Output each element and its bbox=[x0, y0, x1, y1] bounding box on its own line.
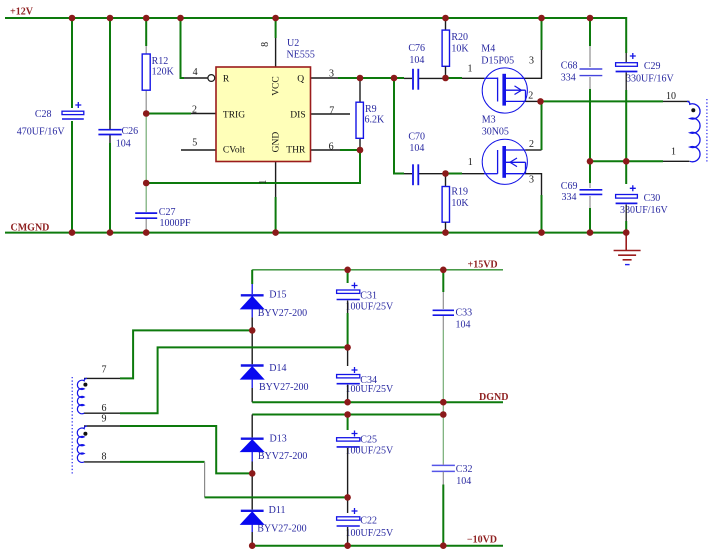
svg-text:334: 334 bbox=[562, 192, 577, 203]
resistor R19 top lead bbox=[445, 174, 447, 187]
C25 bottom lead bbox=[347, 448, 349, 498]
T1 pin8 lead bbox=[84, 461, 120, 463]
capacitor C32 bbox=[432, 464, 473, 487]
wire C26 column bbox=[109, 18, 111, 233]
transformer T1 pin1 lead bbox=[663, 160, 690, 162]
T1 primary core dashed line bbox=[706, 99, 708, 164]
pin U2.8 lead bbox=[275, 38, 277, 67]
capacitor C33 leads bbox=[442, 292, 444, 330]
transformer T1 secondary winding A (pins 7-6) bbox=[77, 378, 87, 413]
wire TRIG row bbox=[146, 113, 191, 115]
junction row2/C25 top bbox=[344, 411, 351, 418]
wire C70 right to gate node bbox=[419, 173, 443, 175]
wire VCC to bus bbox=[275, 18, 277, 38]
svg-text:4: 4 bbox=[193, 67, 198, 78]
svg-text:+15VD: +15VD bbox=[468, 259, 498, 270]
capacitor C33 bbox=[433, 307, 473, 330]
svg-text:THR: THR bbox=[286, 145, 306, 155]
wire C31 column top bbox=[347, 270, 349, 283]
wire C30 top to row1 bbox=[625, 161, 627, 184]
svg-text:330UF/16V: 330UF/16V bbox=[620, 205, 669, 216]
svg-text:C27: C27 bbox=[159, 207, 176, 218]
power port DGND bbox=[479, 392, 508, 403]
svg-text:D11: D11 bbox=[269, 505, 286, 516]
C25 top lead bbox=[347, 415, 349, 431]
svg-text:3: 3 bbox=[329, 69, 334, 80]
junction TRIG node bbox=[143, 110, 150, 117]
junction CMGND/C26 bbox=[107, 229, 114, 236]
svg-text:M3: M3 bbox=[482, 114, 496, 125]
svg-text:120K: 120K bbox=[152, 67, 175, 78]
svg-text:1: 1 bbox=[258, 180, 269, 185]
M3 pin numbers bbox=[468, 139, 534, 186]
svg-text:C68: C68 bbox=[561, 60, 578, 71]
junction M4 source node bbox=[537, 98, 544, 105]
junction C29/C30 row1 bbox=[623, 158, 630, 165]
wire R12 bottom to TRIG node bbox=[145, 90, 147, 113]
svg-text:100UF/25V: 100UF/25V bbox=[346, 528, 395, 539]
wire pin4 branch bbox=[181, 18, 185, 78]
junction Q/C70 branch bbox=[391, 75, 398, 82]
C31 bottom lead bbox=[347, 301, 349, 314]
junction R20/C76/M4 gate bbox=[442, 75, 449, 82]
wire winding pin8 to C25/C22 midpoint bbox=[120, 461, 205, 463]
power port +12V bbox=[10, 7, 34, 18]
svg-text:R: R bbox=[223, 75, 230, 85]
C34 leads bbox=[347, 347, 349, 402]
svg-text:C22: C22 bbox=[360, 516, 377, 527]
pin U2.2 lead bbox=[191, 113, 216, 115]
junction +15VD/C33 bbox=[440, 267, 447, 274]
junction CMGND/C69 bbox=[587, 229, 594, 236]
junction DGND/C34 bbox=[344, 399, 351, 406]
junction CMGND/C27 bbox=[143, 229, 150, 236]
C22 leads bbox=[347, 497, 349, 545]
svg-text:470UF/16V: 470UF/16V bbox=[17, 126, 66, 137]
M3 pin2 lead bbox=[526, 149, 542, 151]
T1 pin number 7 bbox=[102, 365, 107, 376]
winding A polarity dot bbox=[83, 383, 87, 387]
resistor R19 bbox=[442, 187, 469, 223]
svg-text:VCC: VCC bbox=[272, 76, 282, 96]
node +15VD rail bbox=[252, 270, 503, 284]
svg-text:104: 104 bbox=[456, 319, 471, 330]
wire pin8 row to midpoint bbox=[205, 496, 348, 498]
pin U2.5 lead bbox=[181, 149, 216, 151]
svg-text:C69: C69 bbox=[561, 181, 578, 192]
resistor R20 top wire bbox=[445, 19, 447, 30]
junction row2/DGND branch bbox=[440, 411, 447, 418]
C26 pins bbox=[109, 120, 111, 143]
svg-text:D13: D13 bbox=[270, 433, 287, 444]
U2 pin numbers bbox=[192, 42, 334, 185]
node DGND rail bbox=[252, 401, 503, 403]
M4 pin3 lead bbox=[525, 50, 542, 78]
wire C69 top to row1 bbox=[589, 161, 591, 183]
wire GND pin to bus bbox=[275, 197, 277, 233]
svg-text:BYV27-200: BYV27-200 bbox=[258, 451, 307, 462]
wire M3 source to CMGND bbox=[541, 195, 543, 233]
svg-text:D15P05: D15P05 bbox=[481, 55, 514, 66]
svg-text:C25: C25 bbox=[360, 435, 377, 446]
wire C76 right to gate node bbox=[419, 77, 443, 79]
junction CMGND/U2 GND bbox=[272, 229, 279, 236]
wire row2 to C32 (pale) bbox=[442, 415, 444, 464]
svg-text:7: 7 bbox=[102, 365, 107, 376]
svg-text:5: 5 bbox=[192, 138, 197, 149]
pin U2.4 lead bbox=[184, 77, 208, 79]
svg-text:DGND: DGND bbox=[479, 392, 508, 403]
svg-text:10: 10 bbox=[666, 91, 676, 102]
D13 anode lead bbox=[251, 462, 253, 474]
svg-text:C76: C76 bbox=[408, 43, 425, 54]
resistor R19 bottom lead bbox=[445, 222, 447, 232]
svg-text:2: 2 bbox=[528, 90, 533, 101]
wire pin8 vertical (grey) bbox=[204, 462, 206, 498]
junction +12V/U2 VCC bbox=[272, 15, 279, 22]
wire Q row bbox=[338, 77, 404, 79]
junction +12V/R20 bbox=[442, 15, 449, 22]
capacitor C27 bbox=[135, 207, 191, 229]
capacitor C26 bbox=[98, 126, 138, 150]
svg-text:−10VD: −10VD bbox=[467, 534, 497, 545]
svg-text:R19: R19 bbox=[451, 187, 468, 198]
svg-text:8: 8 bbox=[260, 42, 271, 47]
pin U2.1 lead bbox=[275, 162, 277, 198]
junction C68/C69 row1 bbox=[587, 158, 594, 165]
transformer T1 primary winding bbox=[687, 101, 700, 161]
svg-text:104: 104 bbox=[409, 55, 424, 66]
D11 cathode lead bbox=[251, 473, 253, 509]
transistor M4 D15P05 bbox=[482, 68, 527, 113]
svg-text:CMGND: CMGND bbox=[11, 223, 50, 234]
svg-text:104: 104 bbox=[456, 476, 471, 487]
svg-text:NE555: NE555 bbox=[287, 50, 315, 61]
capacitor C69 bbox=[561, 181, 603, 203]
diode D11 bbox=[241, 505, 307, 535]
M4 pin2 lead bbox=[526, 100, 541, 102]
D15 anode lead bbox=[251, 317, 253, 330]
svg-text:BYV27-200: BYV27-200 bbox=[258, 308, 307, 319]
wire row1 C68/C29 to transformer pin 1 bbox=[590, 160, 663, 162]
junction THR/R9 bottom bbox=[357, 147, 364, 154]
capacitor C30 bottom lead bbox=[625, 205, 627, 222]
wire C68 bottom to row1 bbox=[589, 89, 591, 161]
pin U2.6 lead bbox=[311, 149, 341, 151]
svg-text:8: 8 bbox=[102, 452, 107, 463]
pin U2.3 lead bbox=[311, 77, 339, 79]
capacitor C22 bbox=[337, 508, 394, 539]
M4 labels bbox=[481, 44, 514, 67]
op-amp/timer U2 NE555 body bbox=[208, 67, 311, 162]
power port -10VD bbox=[467, 534, 497, 545]
junction C25-/C22+ midpoint/pin8 bbox=[344, 494, 351, 501]
svg-text:C30: C30 bbox=[644, 193, 661, 204]
junction D15 anode/D14 cathode/pin7 bbox=[249, 327, 256, 334]
junction +12V/M4 drain bbox=[538, 15, 545, 22]
wire branch Q-row down to C70 row bbox=[394, 78, 404, 174]
D14 cathode lead bbox=[251, 330, 253, 364]
svg-text:R20: R20 bbox=[451, 32, 468, 43]
svg-text:6: 6 bbox=[102, 403, 107, 414]
junction Q/R9 top bbox=[357, 75, 364, 82]
capacitor C68 leads bbox=[589, 46, 591, 89]
svg-text:D15: D15 bbox=[269, 289, 286, 300]
D14 anode lead bbox=[251, 388, 253, 402]
junction -10VD/D11 anode bbox=[249, 542, 256, 549]
C76 left pin bbox=[404, 77, 412, 79]
svg-text:100UF/25V: 100UF/25V bbox=[346, 384, 395, 395]
svg-text:3: 3 bbox=[529, 55, 534, 66]
D11 anode lead bbox=[251, 532, 253, 546]
capacitor C70 bbox=[408, 131, 425, 185]
M3 labels bbox=[482, 114, 509, 137]
U2 designator labels bbox=[287, 38, 315, 61]
junction -10VD/C32 bbox=[440, 542, 447, 549]
svg-text:C29: C29 bbox=[644, 61, 661, 72]
junction R19/C70/M3 gate bbox=[442, 170, 449, 177]
D13 cathode lead bbox=[251, 415, 253, 438]
svg-text:2: 2 bbox=[192, 105, 197, 116]
svg-text:2: 2 bbox=[529, 139, 534, 150]
transistor M3 30N05 bbox=[482, 139, 527, 184]
wire winding pin9 to D13/D11 node bbox=[120, 426, 252, 473]
junction CMGND/R19 bbox=[442, 229, 449, 236]
svg-text:BYV27-200: BYV27-200 bbox=[259, 382, 308, 393]
diode D15 bbox=[241, 284, 307, 319]
capacitor C25 bbox=[337, 431, 394, 457]
T1 pin6 lead bbox=[84, 412, 120, 414]
M4 pin numbers bbox=[468, 55, 535, 101]
resistor R9 bbox=[356, 102, 385, 138]
T1 pin number 8 bbox=[102, 452, 107, 463]
wire DGND to row2 (pale) bbox=[442, 402, 444, 414]
M3 pin3 lead bbox=[526, 174, 542, 195]
resistor R20 bottom lead bbox=[445, 66, 447, 78]
junction +12V/C28 bbox=[69, 15, 76, 22]
svg-text:1000PF: 1000PF bbox=[160, 218, 192, 229]
svg-text:C70: C70 bbox=[408, 131, 425, 142]
transformer T1 pin10 lead bbox=[663, 100, 690, 102]
wire C68 column top bbox=[589, 18, 591, 46]
svg-text:3: 3 bbox=[529, 175, 534, 186]
node +12V top bus wire bbox=[5, 18, 626, 53]
svg-text:Q: Q bbox=[297, 75, 304, 85]
wire R12 top lead bbox=[145, 18, 147, 46]
T1 pin9 lead bbox=[84, 425, 120, 427]
wire M4 drain to bus bbox=[541, 18, 543, 50]
svg-text:DIS: DIS bbox=[290, 110, 305, 120]
C70 left pin bbox=[404, 173, 412, 175]
capacitor C28 bbox=[17, 102, 84, 137]
svg-text:104: 104 bbox=[409, 143, 424, 154]
svg-text:334: 334 bbox=[561, 73, 576, 84]
svg-text:30N05: 30N05 bbox=[482, 127, 509, 138]
capacitor C30 bbox=[616, 185, 669, 216]
ground blue tick bbox=[625, 264, 630, 266]
svg-text:1: 1 bbox=[468, 64, 473, 75]
junction DGND/C33 bbox=[440, 399, 447, 406]
wire bottom row net bbox=[146, 150, 360, 183]
svg-text:C33: C33 bbox=[456, 307, 473, 318]
wire THR to R9 node bbox=[340, 149, 360, 151]
transformer T1 secondary winding B (pins 9-8) bbox=[77, 426, 87, 462]
junction +15VD/C31 bbox=[344, 267, 351, 274]
capacitor C32 bottom lead bbox=[442, 463, 444, 485]
svg-text:TRIG: TRIG bbox=[223, 110, 245, 120]
wire C33 column top bbox=[442, 270, 444, 292]
svg-text:9: 9 bbox=[102, 414, 107, 425]
junction -10VD/C22 bbox=[344, 542, 351, 549]
wire winding pin7 to D15/D14 node bbox=[120, 330, 252, 378]
resistor R9 leads bbox=[359, 78, 361, 150]
capacitor C76 bbox=[408, 43, 425, 89]
svg-text:D14: D14 bbox=[269, 363, 286, 374]
junction +12V/C68 bbox=[587, 15, 594, 22]
junction +12V/pin4 branch bbox=[177, 15, 184, 22]
svg-text:M4: M4 bbox=[481, 44, 495, 55]
capacitor C69 leads bbox=[589, 183, 591, 208]
winding B polarity dot bbox=[83, 432, 87, 436]
junction C27 top node bbox=[143, 180, 150, 187]
wire C69 bottom bbox=[589, 208, 591, 233]
wire C32 to -10VD rail bbox=[442, 485, 444, 546]
pin U2.7 lead bbox=[311, 113, 351, 115]
svg-text:BYV27-200: BYV27-200 bbox=[257, 524, 306, 535]
junction CMGND/C30-ground bbox=[623, 229, 630, 236]
junction +12V/C26 bbox=[107, 15, 114, 22]
wire M4 pin2 to M3 pin2 bbox=[541, 101, 543, 150]
svg-text:10K: 10K bbox=[451, 43, 469, 54]
junction D13 anode/D11 cathode/pin9 bbox=[249, 470, 256, 477]
T1 primary polarity dot bbox=[691, 108, 695, 112]
earth ground symbol bbox=[614, 233, 641, 260]
T1 pin number 9 bbox=[102, 414, 107, 425]
svg-text:7: 7 bbox=[329, 106, 334, 117]
svg-text:+12V: +12V bbox=[10, 7, 34, 18]
capacitor C29 lead top bbox=[625, 53, 627, 62]
svg-text:1: 1 bbox=[671, 147, 676, 158]
svg-text:GND: GND bbox=[272, 132, 282, 153]
capacitor C29 bbox=[616, 53, 675, 84]
svg-text:104: 104 bbox=[116, 138, 131, 149]
svg-text:1: 1 bbox=[468, 157, 473, 168]
diode D14 bbox=[241, 363, 309, 393]
svg-text:330UF/16V: 330UF/16V bbox=[626, 73, 675, 84]
junction +12V/R12 bbox=[143, 15, 150, 22]
node CMGND bottom bus wire bbox=[5, 232, 626, 234]
T1 pin number 6 bbox=[102, 403, 107, 414]
junction CMGND/C28 bbox=[69, 229, 76, 236]
wire TRIG node to C27 node bbox=[145, 114, 147, 213]
wire row to transformer pin 10 bbox=[541, 100, 664, 102]
power port CMGND bbox=[11, 223, 50, 234]
capacitor C31 bbox=[337, 283, 394, 313]
node -10VD rail bbox=[252, 545, 503, 547]
wire C31/C34 midpoint row to winding pin6 bbox=[120, 347, 348, 413]
wire DGND row2 (D13 cathode / C25 top) bbox=[252, 414, 443, 416]
capacitor C68 bbox=[561, 60, 603, 83]
svg-text:R9: R9 bbox=[365, 104, 377, 115]
T1 pin number 10 bbox=[666, 91, 676, 102]
svg-text:CVolt: CVolt bbox=[223, 145, 245, 155]
junction C31-/C34+ midpoint bbox=[344, 344, 351, 351]
resistor R12 bbox=[142, 54, 174, 90]
svg-text:100UF/25V: 100UF/25V bbox=[346, 302, 395, 313]
wire C33 to DGND (pale) bbox=[442, 330, 444, 402]
svg-text:C28: C28 bbox=[35, 109, 52, 120]
resistor R20 bbox=[442, 30, 469, 66]
svg-text:C26: C26 bbox=[122, 126, 139, 137]
diode D13 bbox=[241, 433, 308, 462]
svg-text:C31: C31 bbox=[360, 291, 377, 302]
junction CMGND/M3 source bbox=[538, 229, 545, 236]
T1 pin number 1 bbox=[671, 147, 676, 158]
T1 pin7 lead bbox=[84, 377, 120, 379]
capacitor C34 bbox=[337, 367, 394, 395]
svg-text:R12: R12 bbox=[152, 56, 169, 67]
wire C28 column bbox=[71, 18, 73, 233]
svg-text:100UF/25V: 100UF/25V bbox=[346, 445, 395, 456]
svg-text:C32: C32 bbox=[456, 464, 473, 475]
T1 secondary core dashed line bbox=[71, 377, 73, 474]
wire C27 bottom lead bbox=[145, 219, 147, 232]
wire C29 bottom to row1 bbox=[625, 73, 627, 91]
power port +15VD bbox=[468, 259, 498, 270]
svg-text:6.2K: 6.2K bbox=[365, 114, 386, 125]
svg-text:10K: 10K bbox=[451, 198, 469, 209]
svg-text:6: 6 bbox=[329, 141, 334, 152]
svg-text:U2: U2 bbox=[287, 38, 299, 49]
